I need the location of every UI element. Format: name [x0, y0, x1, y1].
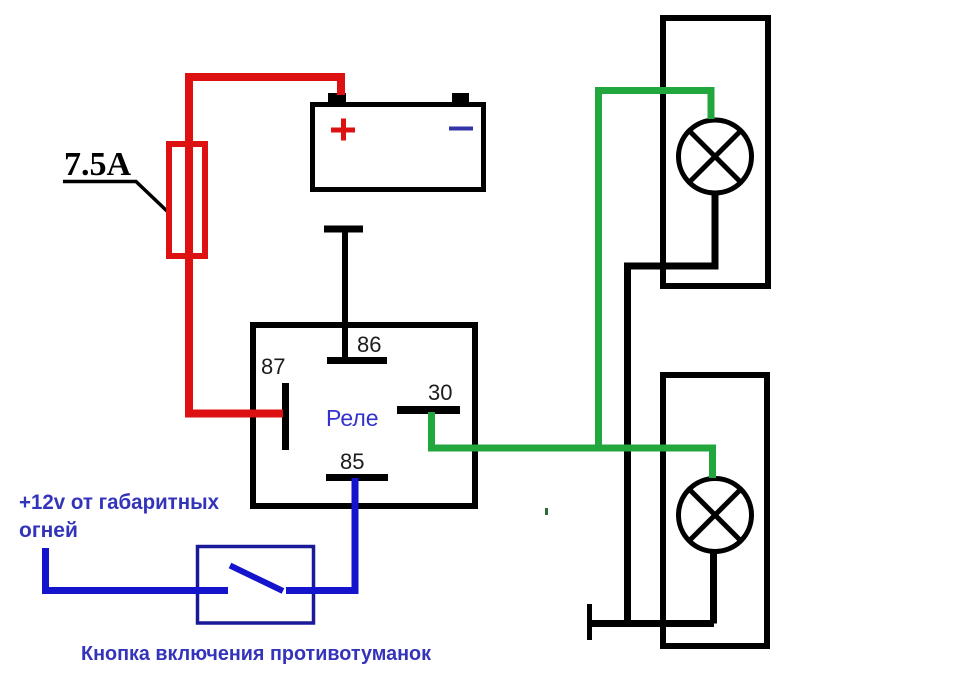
svg-text:Кнопка включения противотумано: Кнопка включения противотуманок — [81, 643, 432, 665]
svg-text:30: 30 — [428, 380, 452, 405]
svg-text:86: 86 — [357, 332, 381, 357]
svg-text:+12v от габаритных: +12v от габаритных — [19, 491, 219, 514]
svg-text:огней: огней — [19, 519, 78, 542]
svg-text:85: 85 — [340, 449, 364, 474]
svg-text:7.5A: 7.5A — [64, 146, 132, 183]
svg-text:Реле: Реле — [326, 405, 379, 431]
svg-text:87: 87 — [261, 354, 285, 379]
